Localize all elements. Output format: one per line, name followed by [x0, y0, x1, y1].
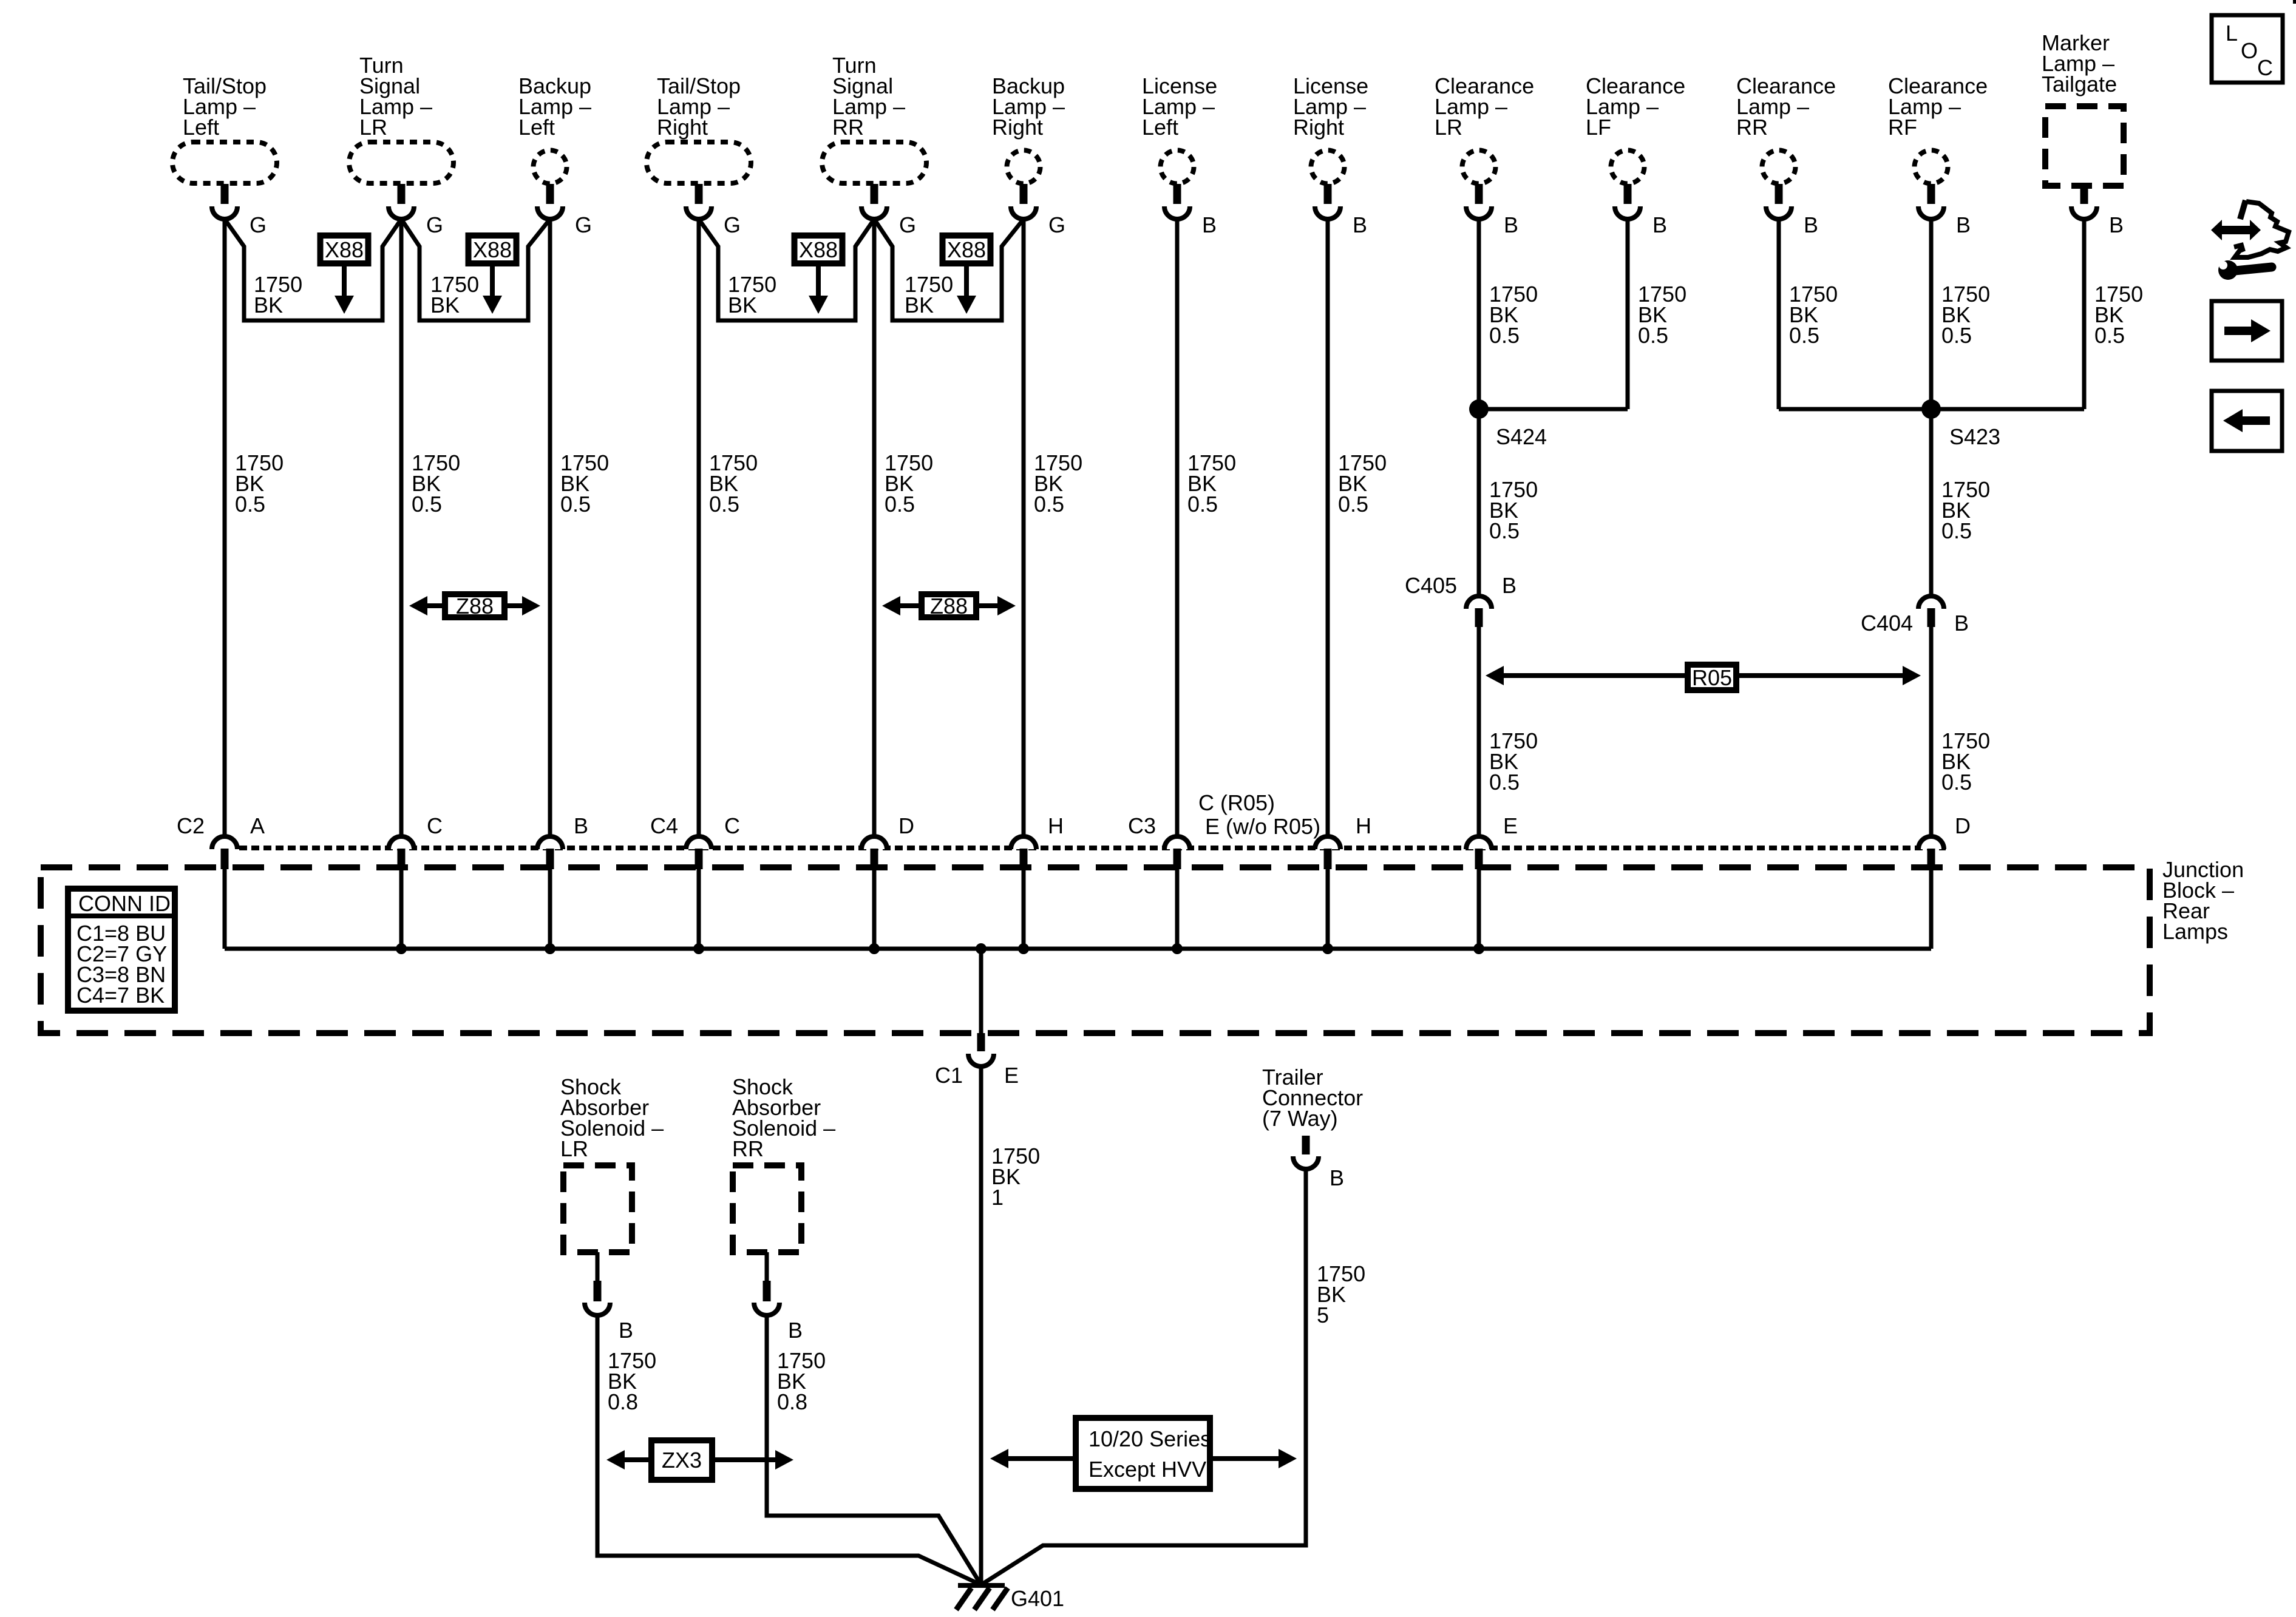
left arrow legend box	[2212, 391, 2282, 451]
wire Clearance Lamp RF to splice S423	[1929, 219, 1934, 409]
svg-text:CONN ID: CONN ID	[78, 891, 171, 916]
lamp connector pin and socket	[398, 184, 406, 204]
svg-text:X88: X88	[799, 237, 838, 262]
svg-text:Right: Right	[992, 115, 1043, 140]
junction block pin connector	[1918, 836, 1944, 849]
svg-text:C4=7 BK: C4=7 BK	[76, 983, 165, 1008]
svg-text:0.5: 0.5	[1789, 323, 1819, 348]
wire 1750 BK 0.5 from License Lamp Left to junction block	[1175, 219, 1180, 837]
wire 1750 BK 0.5 from Tail/Stop Lamp Left to junction block	[223, 219, 227, 837]
svg-text:B: B	[1330, 1165, 1344, 1190]
wire junction pin to bus	[697, 869, 701, 949]
junction block pin connector	[861, 836, 887, 849]
wire C404 to junction block pin D	[1929, 626, 1934, 837]
lamp Tail/Stop Lamp - Right (dashed outline)	[647, 142, 751, 183]
lamp connector pin and socket	[1475, 184, 1483, 204]
svg-text:D: D	[898, 813, 914, 838]
junction block pin connector	[537, 836, 563, 849]
wire junction pin to bus	[399, 869, 404, 949]
svg-text:C2: C2	[177, 813, 205, 838]
page corner mark	[2293, 0, 2296, 4]
wire junction pin to bus	[223, 869, 227, 949]
lamp License Lamp - Right (dashed circle)	[1311, 151, 1345, 184]
svg-text:C3: C3	[1128, 813, 1156, 838]
wire 1750 BK 0.5 from Backup Lamp Right to junction block	[1022, 219, 1026, 837]
svg-text:0.8: 0.8	[777, 1389, 807, 1414]
svg-text:Lamps: Lamps	[2162, 919, 2228, 944]
svg-text:G401: G401	[1011, 1586, 1064, 1611]
svg-text:C1: C1	[935, 1063, 963, 1088]
svg-text:0.5: 0.5	[1338, 492, 1368, 517]
wire junction pin to bus	[1175, 869, 1180, 949]
wire S423 to connector C404	[1929, 409, 1934, 597]
svg-text:R05: R05	[1692, 665, 1732, 690]
ground G401	[958, 1583, 1005, 1588]
svg-text:B: B	[1956, 212, 1971, 237]
X88 reference box with arrow	[469, 236, 517, 263]
svg-text:B: B	[574, 813, 588, 838]
svg-text:BK: BK	[430, 293, 460, 317]
junction block pin connector	[389, 836, 414, 849]
svg-text:0.5: 0.5	[1638, 323, 1668, 348]
X88 reference box with arrow	[795, 236, 843, 263]
svg-text:RR: RR	[832, 115, 864, 140]
svg-text:0.5: 0.5	[1489, 323, 1520, 348]
lamp connector pin and socket	[1927, 184, 1935, 204]
Shock Absorber Solenoid RR (dashed box)	[733, 1165, 801, 1252]
lamp Clearance Lamp - RF (dashed circle)	[1915, 151, 1948, 184]
wire Clearance Lamp LF down	[1626, 219, 1630, 409]
svg-text:C (R05): C (R05)	[1198, 790, 1275, 815]
Shock Absorber Solenoid RR connector	[765, 1252, 769, 1282]
svg-text:0.5: 0.5	[2094, 323, 2125, 348]
svg-text:B: B	[1652, 212, 1667, 237]
lamp Marker Lamp - Tailgate (dashed box)	[2045, 106, 2124, 186]
wire 1750 BK 0.8 Shock Absorber Solenoid RR to ground	[767, 1315, 981, 1585]
svg-text:G: G	[426, 212, 443, 237]
svg-text:LR: LR	[1435, 115, 1462, 140]
svg-text:L: L	[2226, 21, 2238, 46]
svg-text:0.5: 0.5	[235, 492, 265, 517]
wire splice S424 to Clearance LF (horizontal)	[1479, 407, 1628, 412]
svg-text:B: B	[2109, 212, 2124, 237]
svg-text:G: G	[575, 212, 592, 237]
lamp connector pin and socket	[221, 184, 229, 204]
bus junction dots	[396, 943, 407, 954]
X88 reference box with arrow	[321, 236, 369, 263]
svg-text:X88: X88	[325, 237, 364, 262]
wire jumper Turn Signal RR to Backup Right (X88)	[874, 219, 1024, 320]
ZX3 reference box with arrows	[623, 1457, 651, 1462]
splice S424	[1469, 399, 1489, 419]
svg-text:0.5: 0.5	[412, 492, 442, 517]
wire Marker Lamp Tailgate down	[2082, 219, 2087, 409]
svg-text:0.5: 0.5	[1941, 518, 1972, 543]
svg-text:0.5: 0.5	[1187, 492, 1218, 517]
lamp Turn Signal Lamp - LR (dashed outline)	[349, 142, 453, 183]
wire bus to connector C1	[979, 949, 983, 1034]
lamp connector pin and socket	[1020, 184, 1028, 204]
connector C1 pin and socket	[977, 1033, 985, 1051]
svg-text:H: H	[1048, 813, 1064, 838]
junction block connector row dotted line	[239, 846, 1946, 850]
lamp Clearance Lamp - LR (dashed circle)	[1462, 151, 1496, 184]
junction block outline (Junction Block - Rear Lamps)	[41, 867, 2150, 1033]
svg-text:LR: LR	[560, 1136, 588, 1161]
svg-text:0.5: 0.5	[1489, 518, 1520, 543]
wire jumper Tail/Stop Right to Turn Signal RR (X88)	[699, 219, 874, 320]
wire jumper Tail/Stop Left to Turn Signal LR (X88)	[225, 219, 401, 320]
junction block pin connector	[1466, 836, 1492, 849]
lamp Turn Signal Lamp - RR (dashed outline)	[822, 142, 926, 183]
svg-text:B: B	[1504, 212, 1518, 237]
wire 1750 BK 0.5 from Turn Signal Lamp RR to junction block	[872, 219, 877, 837]
svg-text:RR: RR	[732, 1136, 764, 1161]
connector C405	[1466, 596, 1492, 609]
svg-text:B: B	[619, 1318, 633, 1343]
wire jumper Turn Signal LR to Backup Left (X88)	[401, 219, 550, 320]
lamp Clearance Lamp - RR (dashed circle)	[1762, 151, 1796, 184]
svg-text:BK: BK	[728, 293, 757, 317]
wire 1750 BK 0.5 from Backup Lamp Left to junction block	[548, 219, 552, 837]
svg-text:LR: LR	[359, 115, 387, 140]
svg-text:ZX3: ZX3	[662, 1448, 702, 1473]
lamp connector pin and socket	[695, 184, 703, 204]
svg-text:Right: Right	[1293, 115, 1344, 140]
svg-text:C404: C404	[1861, 611, 1913, 636]
svg-text:A: A	[250, 813, 265, 838]
wire Clearance RR to splice S423 (horizontal)	[1779, 407, 1931, 412]
svg-text:0.8: 0.8	[608, 1389, 638, 1414]
svg-text:0.5: 0.5	[1941, 323, 1972, 348]
wire Marker Lamp to splice S423 (horizontal)	[1931, 407, 2084, 412]
svg-text:RF: RF	[1888, 115, 1917, 140]
wire 1750 BK 0.8 Shock Absorber Solenoid LR to ground	[597, 1315, 981, 1585]
Z88 reference box with arrows	[899, 603, 922, 608]
junction block pin connector	[1011, 836, 1036, 849]
wire 1750 BK 0.5 from License Lamp Right to junction block	[1326, 219, 1330, 837]
lamp connector pin and socket	[1775, 184, 1783, 204]
wire 1750 BK 5 Trailer Connector to ground	[981, 1169, 1306, 1585]
R05 reference box with arrows	[1503, 673, 1904, 678]
wire Clearance Lamp LR to splice S424	[1477, 219, 1481, 409]
Shock Absorber Solenoid LR connector	[596, 1252, 600, 1282]
svg-text:G: G	[899, 212, 916, 237]
junction block pin connector	[1164, 836, 1190, 849]
junction block pin connector	[212, 836, 237, 849]
svg-text:S424: S424	[1496, 424, 1547, 449]
svg-text:B: B	[1202, 212, 1217, 237]
svg-text:0.5: 0.5	[1941, 770, 1972, 795]
lamp Tail/Stop Lamp - Left (dashed outline)	[172, 142, 277, 183]
svg-text:B: B	[1954, 611, 1969, 636]
svg-text:C: C	[427, 813, 443, 838]
connector C404	[1918, 596, 1944, 609]
svg-text:H: H	[1356, 813, 1371, 838]
wire junction pin to bus	[548, 869, 552, 949]
svg-text:0.5: 0.5	[709, 492, 739, 517]
wire junction pin to bus	[872, 869, 877, 949]
wire junction pin to bus	[1022, 869, 1026, 949]
right arrow legend box	[2212, 301, 2282, 361]
Marker lamp connector pin and socket	[2080, 189, 2088, 204]
lamp Clearance Lamp - LF (dashed circle)	[1611, 151, 1645, 184]
lamp connector pin and socket	[546, 184, 554, 204]
svg-text:O: O	[2241, 38, 2258, 63]
svg-text:0.5: 0.5	[885, 492, 915, 517]
svg-text:0.5: 0.5	[1489, 770, 1520, 795]
svg-text:G: G	[1048, 212, 1065, 237]
svg-text:B: B	[1353, 212, 1367, 237]
wire Clearance Lamp RR down	[1777, 219, 1781, 409]
svg-text:E (w/o R05): E (w/o R05)	[1205, 814, 1320, 839]
lamp connector pin and socket	[1624, 184, 1632, 204]
svg-text:Z88: Z88	[930, 594, 968, 619]
svg-text:LF: LF	[1586, 115, 1611, 140]
lamp connector pin and socket	[1324, 184, 1332, 204]
wire junction pin to bus	[1477, 869, 1481, 949]
svg-text:B: B	[1804, 212, 1818, 237]
Trailer Connector (7 Way) pin and socket	[1302, 1136, 1310, 1154]
lamp Backup Lamp - Left (dashed circle)	[534, 151, 567, 184]
lamp connector pin and socket	[871, 184, 878, 204]
wire 1750 BK 0.5 from Tail/Stop Lamp Right to junction block	[697, 219, 701, 837]
svg-text:C405: C405	[1405, 573, 1457, 598]
svg-text:G: G	[250, 212, 267, 237]
LOC legend box	[2212, 15, 2283, 83]
svg-text:G: G	[724, 212, 741, 237]
svg-text:C: C	[724, 813, 740, 838]
junction block pin connector	[686, 836, 712, 849]
svg-text:D: D	[1955, 813, 1971, 838]
junction block internal bus	[225, 947, 1931, 951]
splice S423	[1921, 399, 1941, 419]
svg-text:C4: C4	[650, 813, 678, 838]
wire junction pin to bus	[1929, 869, 1934, 949]
svg-text:BK: BK	[254, 293, 283, 317]
lamp Backup Lamp - Right (dashed circle)	[1007, 151, 1041, 184]
svg-text:B: B	[788, 1318, 803, 1343]
Shock Absorber Solenoid LR (dashed box)	[563, 1165, 632, 1252]
svg-text:BK: BK	[905, 293, 934, 317]
svg-text:C: C	[2257, 55, 2273, 80]
service icon (hand with wrench and double arrow)	[2219, 226, 2252, 234]
svg-text:Z88: Z88	[456, 594, 494, 619]
svg-text:X88: X88	[947, 237, 986, 262]
svg-text:RR: RR	[1736, 115, 1768, 140]
svg-text:1: 1	[991, 1185, 1004, 1210]
X88 reference box with arrow	[943, 236, 991, 263]
CONN ID table	[68, 889, 175, 1011]
svg-text:10/20 Series: 10/20 Series	[1089, 1426, 1211, 1451]
junction block pin connector	[1315, 836, 1340, 849]
svg-text:Left: Left	[1142, 115, 1178, 140]
Z88 reference box with arrows	[426, 603, 446, 608]
svg-text:E: E	[1503, 813, 1518, 838]
svg-text:Except HVV: Except HVV	[1089, 1457, 1206, 1482]
svg-text:(7 Way): (7 Way)	[1262, 1106, 1338, 1131]
svg-text:Left: Left	[183, 115, 219, 140]
svg-text:X88: X88	[473, 237, 512, 262]
lamp License Lamp - Left (dashed circle)	[1161, 151, 1194, 184]
wire S424 to connector C405	[1477, 409, 1481, 597]
svg-text:Left: Left	[518, 115, 555, 140]
svg-text:0.5: 0.5	[560, 492, 591, 517]
svg-text:Tailgate: Tailgate	[2042, 72, 2117, 97]
svg-text:S423: S423	[1949, 424, 2000, 449]
wire junction pin to bus	[1326, 869, 1330, 949]
svg-text:5: 5	[1317, 1303, 1329, 1327]
svg-text:Right: Right	[657, 115, 708, 140]
lamp connector pin and socket	[1173, 184, 1181, 204]
wire 1750 BK 0.5 from Turn Signal Lamp LR to junction block	[399, 219, 404, 837]
wire C405 to junction block pin E	[1477, 626, 1481, 837]
svg-text:E: E	[1004, 1063, 1019, 1088]
wire 1750 BK 1 from C1 to ground G401	[979, 1066, 983, 1585]
svg-text:B: B	[1502, 573, 1517, 598]
svg-text:0.5: 0.5	[1034, 492, 1064, 517]
10/20 Series Except HVV reference box with arrows	[1007, 1456, 1076, 1461]
